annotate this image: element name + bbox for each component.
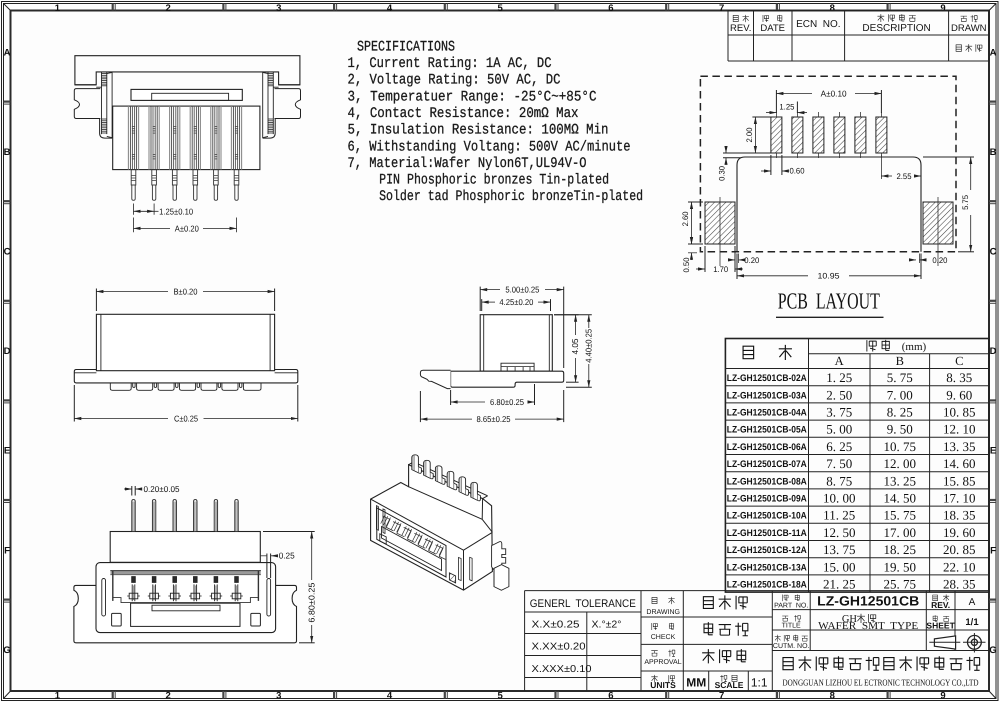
svg-text:18. 35: 18. 35 (943, 508, 976, 523)
svg-text:LZ-GH12501CB-02A: LZ-GH12501CB-02A (727, 373, 807, 384)
svg-text:10.95: 10.95 (818, 272, 841, 281)
pin 3 front view (170, 106, 180, 200)
customer no (775, 635, 781, 642)
svg-text:A: A (969, 597, 976, 608)
side slots (102, 579, 106, 617)
pin 5 front view (211, 106, 221, 200)
svg-text:LZ-GH12501CB-18A: LZ-GH12501CB-18A (727, 580, 807, 591)
svg-text:6: 6 (608, 3, 613, 14)
housing box (96, 314, 274, 370)
svg-text:13. 35: 13. 35 (943, 439, 976, 454)
drawn-by name stamp (956, 45, 961, 51)
svg-text:7: 7 (719, 691, 724, 702)
svg-text:25. 75: 25. 75 (884, 577, 917, 592)
svg-text:1. 25: 1. 25 (826, 370, 852, 385)
svg-text:12. 50: 12. 50 (823, 525, 856, 540)
svg-text:3. 75: 3. 75 (826, 405, 852, 420)
svg-text:3: 3 (276, 3, 281, 14)
dim 8.65±0.25 (420, 390, 563, 422)
svg-text:9: 9 (940, 3, 945, 14)
svg-text:X.XX±0.20: X.XX±0.20 (532, 642, 586, 653)
svg-text:9. 50: 9. 50 (887, 422, 913, 437)
svg-text:8: 8 (830, 691, 835, 702)
revision table header: REV / DATE / ECN NO. / DESCRIPTION / DRAWN (733, 15, 738, 21)
name stamps (703, 597, 713, 609)
dimension A±0.20 (134, 218, 237, 233)
pad 1 (771, 117, 782, 153)
svg-text:DATE: DATE (760, 23, 785, 34)
svg-text:19. 50: 19. 50 (884, 559, 917, 574)
svg-text:11. 25: 11. 25 (823, 508, 855, 523)
svg-text:0.20: 0.20 (932, 256, 948, 265)
crimp ladder column (272, 72, 274, 134)
svg-text:2: 2 (165, 691, 170, 702)
svg-text:0.30: 0.30 (718, 165, 727, 181)
svg-text:0.20: 0.20 (744, 256, 760, 265)
pad 4 (834, 117, 845, 153)
svg-text:WAFER SMT TYPE: WAFER SMT TYPE (818, 621, 918, 632)
svg-text:D: D (990, 346, 997, 357)
dim A±0.10 (776, 90, 881, 113)
svg-text:0.50: 0.50 (682, 257, 691, 273)
dim 0.20 right (919, 254, 921, 264)
svg-text:B: B (4, 147, 11, 158)
pin 1 top view (132, 500, 135, 532)
svg-text:15. 00: 15. 00 (823, 559, 856, 574)
svg-text:5. 00: 5. 00 (826, 422, 852, 437)
svg-text:1.25±0.10: 1.25±0.10 (159, 206, 193, 216)
dimension B±0.20 (96, 289, 274, 312)
svg-text:15. 75: 15. 75 (884, 508, 917, 523)
iso left face slots (376, 506, 378, 531)
svg-text:X.°±2°: X.°±2° (592, 620, 622, 631)
svg-text:LZ-GH12501CB-07A: LZ-GH12501CB-07A (727, 459, 807, 470)
iso square holes (380, 534, 386, 544)
crimp ladder column (101, 72, 103, 134)
svg-text:A±0.10: A±0.10 (821, 88, 847, 98)
iso right slots (459, 558, 462, 581)
svg-text:1, Current Rating: 1A AC, DC: 1, Current Rating: 1A AC, DC (348, 56, 552, 72)
iso solder tab upper (492, 542, 506, 570)
svg-text:19. 60: 19. 60 (943, 525, 976, 540)
svg-text:LZ-GH12501CB-05A: LZ-GH12501CB-05A (727, 425, 807, 436)
svg-text:REV.: REV. (730, 23, 751, 34)
pin 1 front view (128, 106, 138, 200)
header 编号 / 尺寸(mm) / A B C (743, 346, 754, 359)
svg-text:C±0.25: C±0.25 (174, 413, 198, 423)
svg-text:8. 25: 8. 25 (887, 405, 913, 420)
svg-text:4.40±0.25: 4.40±0.25 (583, 329, 593, 363)
svg-text:TITLE: TITLE (782, 623, 801, 630)
dim 0.20 left (738, 254, 740, 264)
svg-text:SPECIFICATIONS: SPECIFICATIONS (357, 39, 455, 55)
retention strip (107, 72, 112, 137)
main housing (top view) (96, 563, 276, 633)
left side pad (705, 202, 735, 244)
contact 1 (127, 577, 140, 602)
specifications text block (348, 39, 644, 205)
svg-text:F: F (4, 545, 10, 556)
svg-text:0.20±0.05: 0.20±0.05 (144, 484, 180, 494)
svg-text:9: 9 (940, 691, 945, 702)
dim 1.70 (705, 246, 735, 272)
dim 0.25 (slot width) (267, 554, 271, 579)
third angle projection symbol (cone) (934, 636, 955, 649)
svg-text:1: 1 (55, 691, 61, 702)
dim 5.00±0.25 (480, 287, 564, 368)
svg-text:CUTM. NO.: CUTM. NO. (773, 643, 810, 650)
pad 5 (855, 117, 866, 153)
dimension C±0.25 (74, 385, 297, 422)
svg-text:3, Temperatuer Range: -25°C~+8: 3, Temperatuer Range: -25°C~+85°C (348, 89, 597, 105)
mounting wing plate with notch (96, 86, 101, 88)
drawing/check/approval labels (652, 597, 657, 603)
svg-text:GENERL TOLERANCE: GENERL TOLERANCE (530, 598, 636, 610)
svg-text:PIN Phosphoric bronzes Tin-pla: PIN Phosphoric bronzes Tin-plated (379, 173, 609, 189)
svg-text:(mm): (mm) (902, 341, 927, 353)
FRONT VIEW: connector housing top bar (75, 56, 300, 85)
svg-text:7, Material:Wafer Nylon6T,UL94: 7, Material:Wafer Nylon6T,UL94V-O (348, 156, 587, 172)
svg-text:DONGGUAN LIZHOU EL ECTRONIC TE: DONGGUAN LIZHOU EL ECTRONIC TECHNOLOGY C… (783, 678, 979, 688)
svg-text:2, Voltage Rating: 50V AC, DC: 2, Voltage Rating: 50V AC, DC (348, 73, 561, 89)
svg-text:8.65±0.25: 8.65±0.25 (477, 414, 511, 424)
dim 2.60 (688, 202, 703, 244)
svg-text:4, Contact Resistance: 20mΩ Ma: 4, Contact Resistance: 20mΩ Max (348, 106, 579, 122)
svg-text:5, Insulation Resistance: 100M: 5, Insulation Resistance: 100MΩ Min (348, 123, 609, 139)
svg-text:2.55: 2.55 (897, 172, 913, 181)
dim 6.80±0.25 (451, 384, 535, 405)
svg-text:6, Withstanding Voltang: 500V: 6, Withstanding Voltang: 500V AC/minute (348, 139, 631, 155)
svg-text:10. 75: 10. 75 (884, 439, 917, 454)
svg-text:LZ-GH12501CB-13A: LZ-GH12501CB-13A (727, 562, 807, 573)
svg-text:14. 50: 14. 50 (884, 491, 917, 506)
pin 5 top view (214, 500, 217, 532)
dim 5.75 (923, 157, 974, 252)
solder tails (110, 383, 261, 390)
PCB LAYOUT dashed board outline (700, 76, 956, 252)
iso front opening (377, 508, 446, 577)
SIDE VIEW housing (480, 315, 552, 372)
svg-text:5. 75: 5. 75 (887, 370, 913, 385)
svg-text:10. 00: 10. 00 (823, 491, 856, 506)
svg-text:UNITS: UNITS (650, 680, 676, 690)
svg-text:0.60: 0.60 (790, 167, 806, 176)
iso tongue (382, 527, 442, 571)
part no (783, 595, 788, 602)
svg-text:G: G (989, 645, 996, 656)
svg-text:LZ-GH12501CB-06A: LZ-GH12501CB-06A (727, 442, 807, 453)
center pocket (131, 603, 240, 626)
zone tick marks top/bottom (112, 4, 114, 11)
svg-text:A: A (990, 47, 997, 58)
dim 0.30 (723, 153, 770, 158)
title block grid (525, 591, 989, 691)
dim 4.05 (554, 315, 579, 383)
svg-text:1/1: 1/1 (965, 617, 979, 628)
svg-text:LZ-GH12501CB-09A: LZ-GH12501CB-09A (727, 494, 807, 505)
pin 3 top view (173, 500, 176, 532)
svg-text:B±0.20: B±0.20 (174, 286, 198, 296)
svg-text:LZ-GH12501CB-12A: LZ-GH12501CB-12A (727, 545, 807, 556)
pin 4 front view (190, 106, 200, 200)
svg-text:5.00±0.25: 5.00±0.25 (505, 285, 539, 295)
svg-text:LZ-GH12501CB: LZ-GH12501CB (817, 594, 919, 609)
svg-text:A: A (4, 47, 11, 58)
pin 2 top view (152, 500, 155, 532)
svg-text:6.80±0.25: 6.80±0.25 (490, 397, 524, 407)
svg-text:20. 85: 20. 85 (943, 542, 976, 557)
svg-text:1: 1 (55, 3, 61, 14)
dim 2.55 (880, 155, 882, 179)
svg-text:5: 5 (498, 3, 504, 14)
svg-text:A: A (835, 354, 844, 368)
svg-text:2: 2 (165, 3, 170, 14)
dim 4.40±0.25 (554, 315, 592, 388)
iso contacts (hatched combs) (381, 515, 447, 560)
svg-text:12. 00: 12. 00 (884, 456, 917, 471)
TOP VIEW base plate with side notches (74, 585, 297, 642)
svg-text:PART NO.: PART NO. (774, 603, 808, 610)
svg-text:6: 6 (608, 691, 613, 702)
svg-text:17. 10: 17. 10 (943, 491, 976, 506)
svg-text:C: C (990, 247, 997, 258)
svg-text:B: B (990, 147, 997, 158)
svg-text:12. 10: 12. 10 (943, 422, 976, 437)
svg-text:4.25±0.20: 4.25±0.20 (499, 297, 533, 307)
dim 0.50 (688, 252, 697, 254)
svg-text:7. 50: 7. 50 (826, 456, 852, 471)
iso interior edges (371, 462, 493, 590)
dim 1.25 (766, 112, 776, 114)
svg-text:LZ-GH12501CB-04A: LZ-GH12501CB-04A (727, 408, 807, 419)
contact 4 (189, 577, 202, 602)
svg-text:LZ-GH12501CB-10A: LZ-GH12501CB-10A (727, 511, 807, 522)
wing lower leg (100, 119, 113, 139)
svg-text:SCALE: SCALE (715, 680, 744, 690)
svg-text:LZ-GH12501CB-08A: LZ-GH12501CB-08A (727, 476, 807, 487)
pad 2 (792, 117, 803, 153)
svg-text:4.05: 4.05 (570, 338, 580, 354)
svg-text:E: E (4, 446, 10, 457)
svg-text:Solder tad Phosphoric bronzeTi: Solder tad Phosphoric bronzeTin-plated (379, 189, 643, 205)
svg-text:PCB LAYOUT: PCB LAYOUT (778, 289, 880, 314)
svg-text:7. 00: 7. 00 (887, 387, 913, 402)
contact comb detail (501, 363, 534, 373)
courtyard outline (737, 157, 921, 252)
svg-text:6.80±0.25: 6.80±0.25 (306, 582, 316, 622)
contact 6 (230, 577, 243, 602)
svg-text:F: F (990, 545, 996, 556)
svg-text:28. 35: 28. 35 (943, 577, 976, 592)
zone tick marks left/right (4, 100, 11, 102)
svg-text:C: C (4, 247, 11, 258)
retention strip (263, 72, 268, 137)
svg-text:REV.: REV. (931, 600, 950, 610)
contact 3 (168, 577, 181, 602)
svg-text:DRAWN: DRAWN (951, 23, 987, 34)
iso solder tab lower (494, 565, 509, 591)
svg-text:1.70: 1.70 (713, 265, 729, 274)
svg-text:14. 60: 14. 60 (943, 456, 976, 471)
right side pad (923, 202, 953, 244)
pin 6 front view (231, 106, 241, 200)
svg-text:LZ-GH12501CB-11A: LZ-GH12501CB-11A (727, 528, 807, 539)
dim 10.95 (737, 254, 921, 280)
svg-text:17. 00: 17. 00 (884, 525, 917, 540)
svg-text:3: 3 (276, 691, 281, 702)
svg-text:APPROVAL: APPROVAL (644, 659, 681, 666)
main housing body (113, 106, 260, 170)
svg-text:X.XXX±0.10: X.XXX±0.10 (532, 664, 592, 675)
base / solder plate (451, 371, 564, 387)
svg-text:CHECK: CHECK (651, 634, 676, 641)
svg-text:DRAWING: DRAWING (646, 609, 680, 616)
dim 2.00 (752, 117, 771, 153)
svg-text:DESCRIPTION: DESCRIPTION (862, 23, 930, 34)
pin 4 top view (194, 500, 197, 532)
dim 6.80±0.25 vertical (263, 532, 315, 643)
pad 6 (876, 117, 887, 153)
dimension 1.25±0.10 (134, 204, 155, 215)
pin 6 top view (235, 500, 238, 532)
svg-text:LZ-GH12501CB-03A: LZ-GH12501CB-03A (727, 390, 807, 401)
contact 5 (210, 577, 223, 602)
svg-text:8. 35: 8. 35 (946, 370, 972, 385)
dim 0.20±0.05 (132, 486, 135, 496)
svg-text:7: 7 (719, 3, 724, 14)
svg-text:13. 25: 13. 25 (884, 473, 917, 488)
svg-text:G: G (3, 645, 10, 656)
svg-text:0.25: 0.25 (279, 551, 295, 561)
hook tab (420, 370, 450, 388)
svg-text:2. 50: 2. 50 (826, 387, 852, 402)
cavity with thick top wall (111, 571, 261, 575)
svg-text:21. 25: 21. 25 (823, 577, 856, 592)
svg-text:9. 60: 9. 60 (946, 387, 972, 402)
BOTTOM VIEW base plate (75, 584, 77, 586)
actuator bar (131, 89, 242, 100)
svg-text:8. 75: 8. 75 (826, 473, 852, 488)
svg-text:18. 25: 18. 25 (884, 542, 917, 557)
svg-text:E: E (990, 446, 996, 457)
rear pin block (110, 532, 260, 563)
mounting wing plate with notch (273, 86, 278, 88)
dim 0.60 (771, 155, 782, 175)
projection target symbol (968, 635, 982, 649)
svg-text:B: B (896, 354, 904, 368)
iso pins (412, 455, 481, 501)
svg-text:2.00: 2.00 (745, 127, 754, 143)
pad 3 (813, 117, 824, 153)
svg-text:4: 4 (387, 3, 393, 14)
svg-text:5: 5 (498, 691, 504, 702)
revision table (728, 11, 989, 62)
corner slots (112, 613, 122, 626)
svg-text:15. 85: 15. 85 (943, 473, 976, 488)
ISOMETRIC VIEW connector body silhouette (371, 465, 493, 590)
svg-text:C: C (955, 354, 963, 368)
svg-text:4: 4 (387, 691, 393, 702)
contact 2 (148, 577, 161, 602)
dim 4.25±0.20 (482, 299, 551, 311)
svg-text:MM: MM (686, 676, 706, 690)
svg-text:22. 10: 22. 10 (943, 559, 976, 574)
svg-text:X.X±0.25: X.X±0.25 (532, 620, 581, 631)
svg-text:2.60: 2.60 (681, 211, 690, 227)
svg-text:10. 85: 10. 85 (943, 405, 976, 420)
svg-text:1.25: 1.25 (779, 102, 795, 111)
svg-text:8: 8 (830, 3, 835, 14)
svg-text:SHEET: SHEET (926, 621, 955, 631)
base flange (74, 370, 297, 383)
title (782, 616, 788, 621)
wing lower leg (263, 119, 276, 139)
pin 2 front view (149, 106, 159, 200)
parts table grid (725, 339, 989, 593)
svg-text:1:1: 1:1 (751, 676, 768, 690)
svg-text:6. 25: 6. 25 (826, 439, 852, 454)
company name (783, 658, 793, 670)
svg-text:5.75: 5.75 (961, 194, 970, 210)
svg-text:A±0.20: A±0.20 (175, 223, 199, 233)
svg-text:D: D (4, 346, 11, 357)
svg-text:ECN NO.: ECN NO. (796, 19, 840, 30)
svg-text:13. 75: 13. 75 (823, 542, 856, 557)
